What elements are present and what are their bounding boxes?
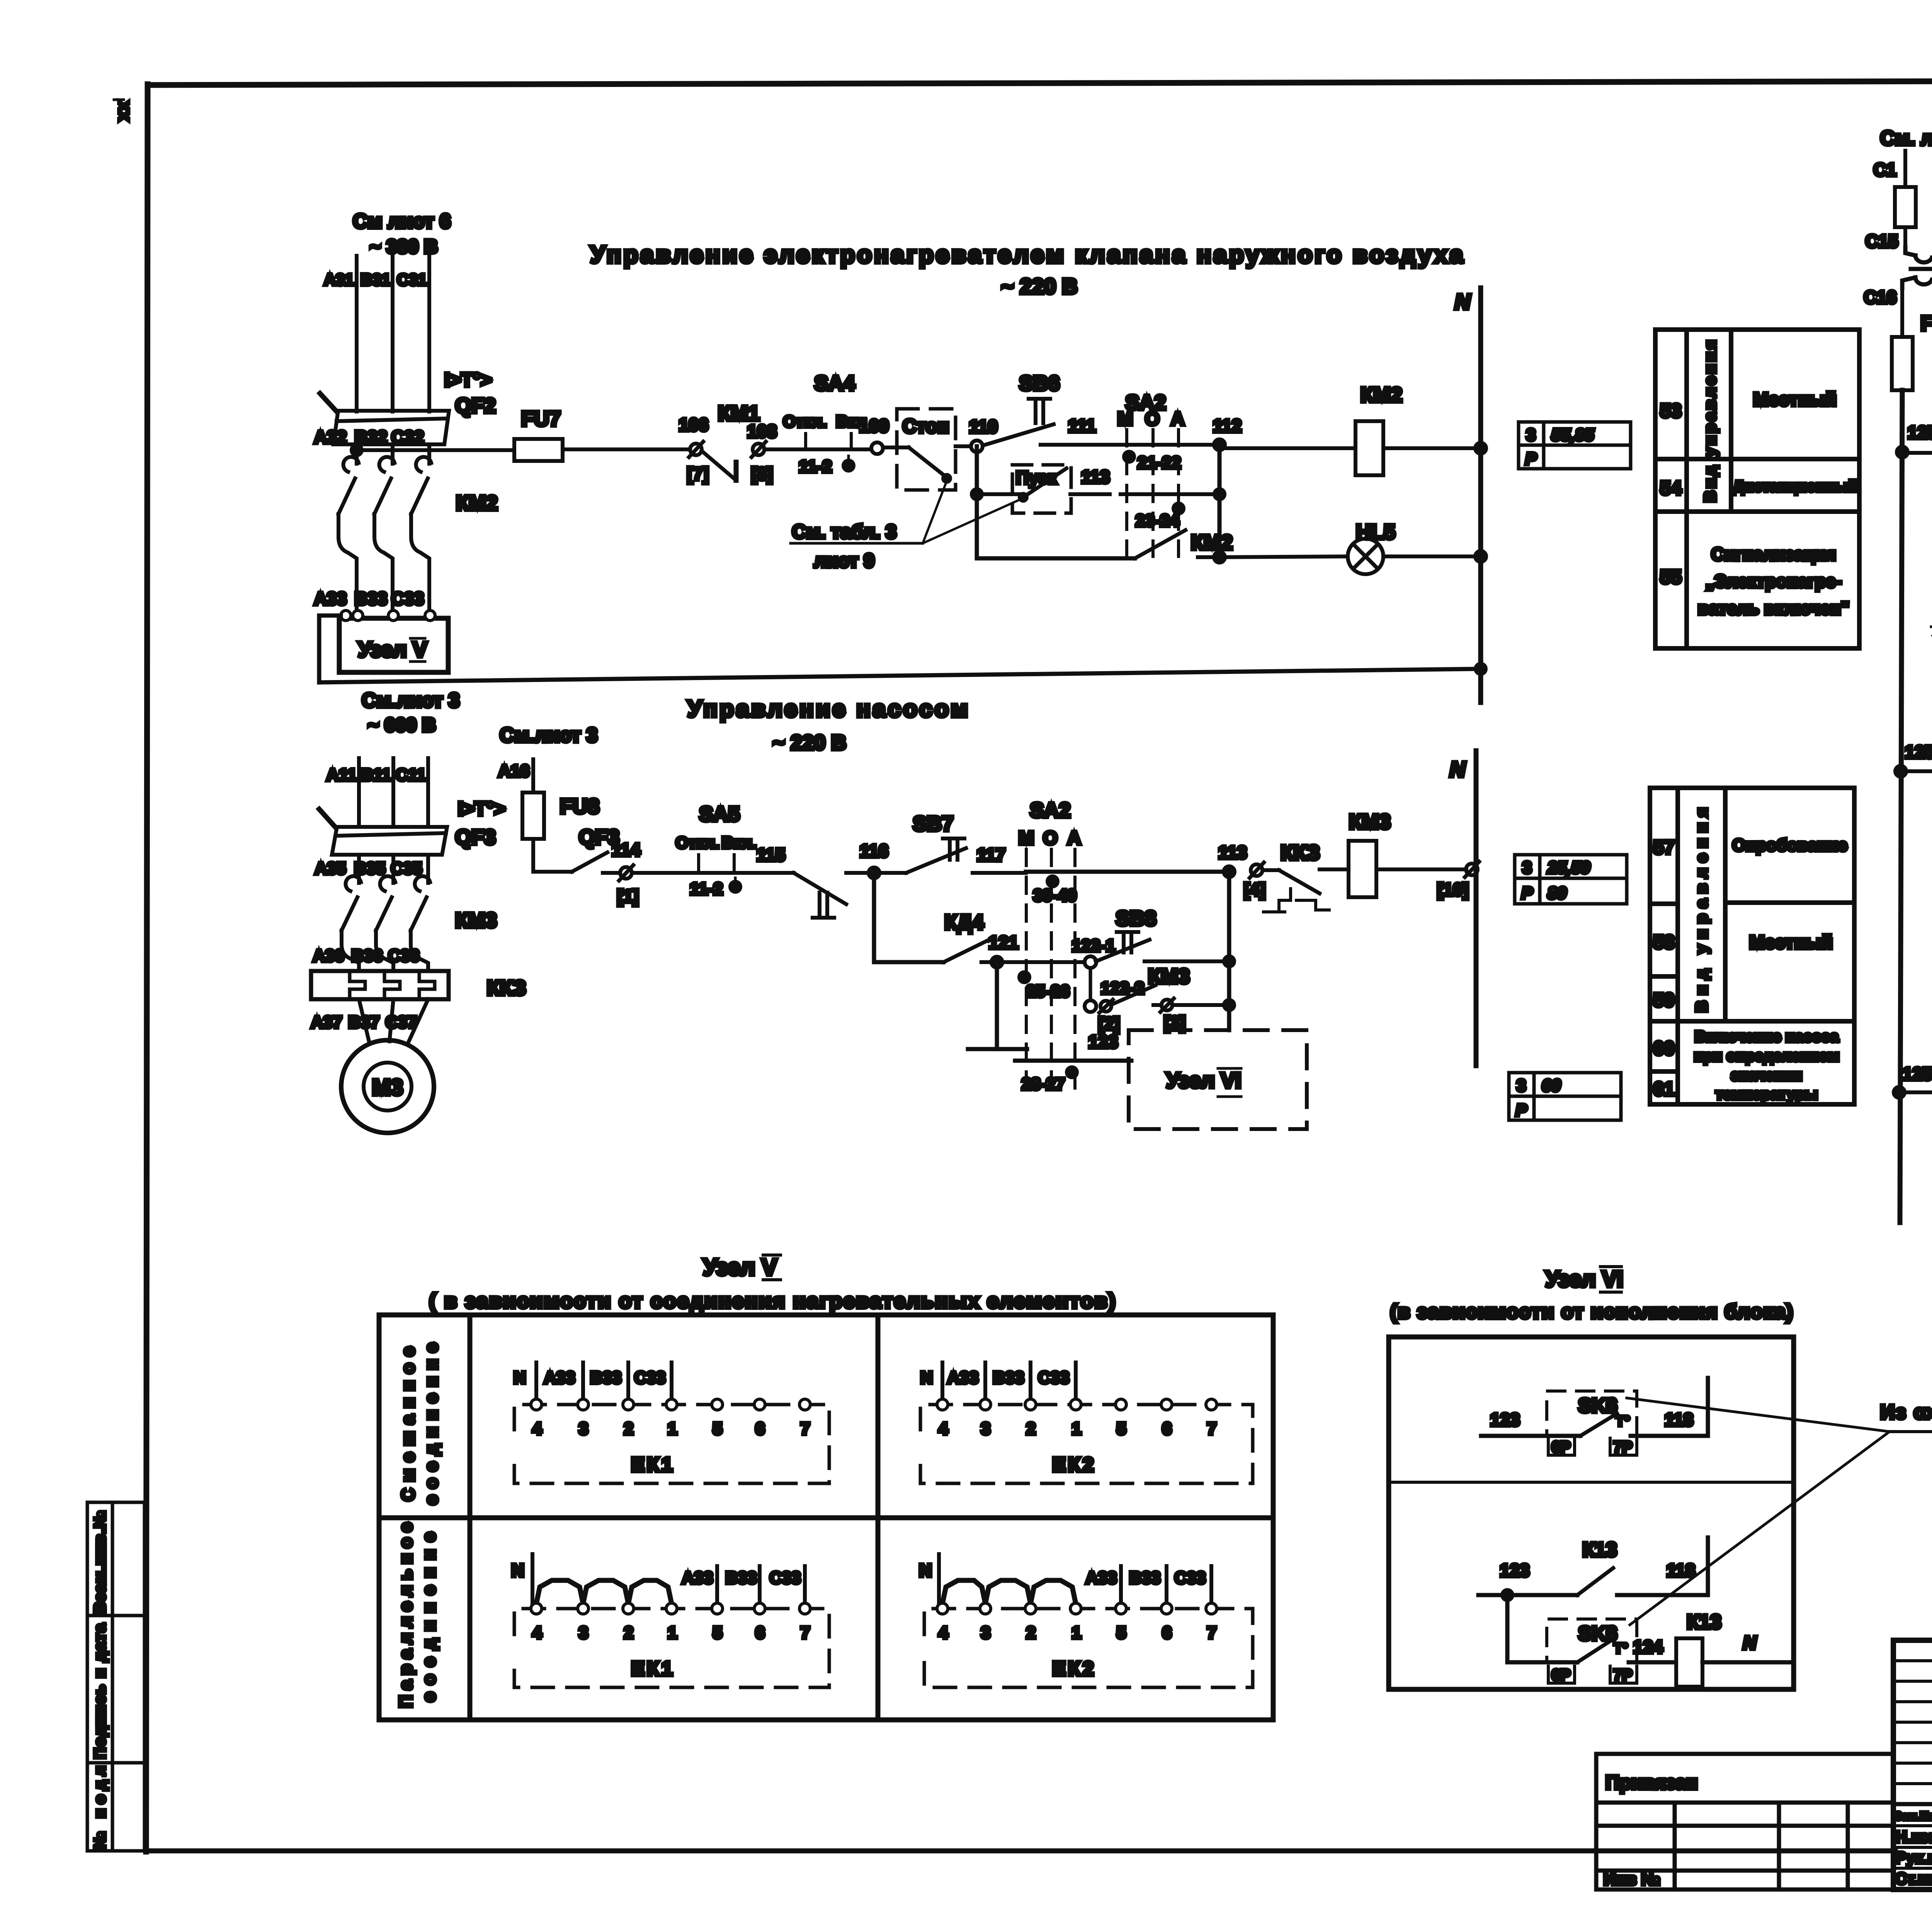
node 28-27 xyxy=(1067,1067,1077,1077)
svg-text:при определенном: при определенном xyxy=(1694,1048,1839,1065)
svg-text:А31: А31 xyxy=(324,270,354,289)
terminal 6Р (2) xyxy=(1548,1666,1575,1683)
heater EK1 (parallel) xyxy=(514,1609,829,1687)
title block left grid xyxy=(1893,1640,1932,1889)
svg-text:О: О xyxy=(1145,409,1159,429)
contact QF3 aux xyxy=(572,852,607,872)
svg-text:ЕК2: ЕК2 xyxy=(1052,1454,1096,1476)
svg-text:59: 59 xyxy=(1653,989,1675,1011)
wire 113 xyxy=(1070,492,1110,496)
wire xyxy=(632,871,683,875)
svg-text:FU8: FU8 xyxy=(560,795,599,818)
svg-text:Местный: Местный xyxy=(1753,389,1837,410)
svg-text:6Р: 6Р xyxy=(1552,1667,1571,1684)
svg-text:Опробование: Опробование xyxy=(1732,836,1847,855)
ref table 3:55,85 xyxy=(1519,422,1631,469)
svg-text:6: 6 xyxy=(1162,1623,1172,1642)
stamp column Взам.инв.№ xyxy=(87,1502,145,1616)
wire heater main row xyxy=(357,448,514,452)
svg-text:В33: В33 xyxy=(355,588,387,609)
contact KK3 break xyxy=(1263,868,1279,872)
svg-text:3: 3 xyxy=(981,1623,990,1642)
heater EK1 (mixed) xyxy=(514,1405,829,1483)
svg-text:FU7: FU7 xyxy=(521,407,561,430)
svg-text:~ 660 В: ~ 660 В xyxy=(368,714,436,736)
svg-text:5: 5 xyxy=(713,1623,722,1642)
fuse FU8 xyxy=(522,793,544,839)
svg-text:2: 2 xyxy=(1026,1419,1036,1438)
svg-text:А32: А32 xyxy=(314,427,347,447)
wire phase B31 xyxy=(391,256,395,412)
svg-text:SA5: SA5 xyxy=(699,803,740,826)
svg-text:С33: С33 xyxy=(634,1368,666,1387)
svg-text:123: 123 xyxy=(1490,1410,1520,1430)
svg-text:Смешанное: Смешанное xyxy=(398,1347,418,1501)
svg-text:В31: В31 xyxy=(361,270,390,289)
svg-text:КД4: КД4 xyxy=(944,911,983,934)
node 23-24 xyxy=(1173,503,1184,514)
svg-text:23-24: 23-24 xyxy=(1136,511,1179,530)
frame top border xyxy=(148,80,1932,85)
svg-text:2: 2 xyxy=(624,1419,633,1438)
svg-text:60: 60 xyxy=(1542,1076,1561,1095)
wire xyxy=(563,447,690,451)
block Узел VI dashed xyxy=(1129,1030,1307,1129)
svg-text:В33: В33 xyxy=(590,1368,622,1387)
svg-text:А37: А37 xyxy=(311,1013,342,1032)
svg-text:21-22: 21-22 xyxy=(1138,453,1181,472)
contact [10] plug xyxy=(1466,864,1478,875)
svg-text:ЕК1: ЕК1 xyxy=(631,1658,675,1680)
block Узел V xyxy=(339,618,448,672)
svg-text:N: N xyxy=(1450,757,1466,781)
node 122-2 xyxy=(1085,1000,1096,1012)
relay coil K13 xyxy=(1676,1638,1702,1687)
contact [4] plug xyxy=(1251,864,1262,876)
svg-text:С33: С33 xyxy=(770,1568,801,1587)
wire neutral return from Узел V xyxy=(319,616,1481,682)
svg-text:О: О xyxy=(1043,828,1057,849)
svg-text:N: N xyxy=(920,1368,933,1387)
svg-text:61: 61 xyxy=(1653,1078,1675,1100)
contact [3] plug xyxy=(1153,1003,1161,1007)
svg-text:К13: К13 xyxy=(1687,1611,1721,1633)
svg-text:~ 220 В: ~ 220 В xyxy=(1001,274,1078,298)
svg-text:Подпись и дата: Подпись и дата xyxy=(92,1623,109,1759)
svg-text:[2]: [2] xyxy=(1098,1014,1120,1034)
svg-text:N: N xyxy=(1455,289,1471,314)
svg-text:Узел VI: Узел VI xyxy=(1545,1267,1623,1292)
wire to QF3 aux xyxy=(533,870,572,874)
contact Пуск blade xyxy=(977,492,1023,496)
svg-text:См. лист 3: См. лист 3 xyxy=(1880,127,1932,150)
wire A16 xyxy=(531,759,535,793)
svg-text:А36: А36 xyxy=(313,946,344,965)
terminal 7Р xyxy=(1610,1438,1637,1455)
stamp column Инв №подл xyxy=(87,1763,145,1851)
fuse FU7 xyxy=(514,439,563,461)
svg-text:6: 6 xyxy=(755,1623,765,1642)
svg-text:А33: А33 xyxy=(1086,1568,1117,1587)
svg-text:110: 110 xyxy=(969,417,998,437)
wire C16 drop xyxy=(1900,288,1904,337)
wire lamp to N xyxy=(1383,554,1481,558)
node 125 (1) xyxy=(1897,447,1908,457)
svg-text:Из схемы регулирования: Из схемы регулирования xyxy=(1880,1401,1932,1423)
wire stub below 121 xyxy=(995,962,999,1049)
wire xyxy=(764,447,871,451)
wire row 123 xyxy=(1015,1059,1131,1063)
wire xyxy=(956,444,971,448)
wire vertical 112-113-KM2aux xyxy=(1218,445,1222,557)
svg-text:( в зависимости от соединени: ( в зависимости от соединения нагревател… xyxy=(429,1289,1116,1313)
svg-text:лист 9: лист 9 xyxy=(814,550,875,571)
svg-text:25,59: 25,59 xyxy=(1547,858,1590,877)
wire to lamp xyxy=(1219,556,1348,557)
svg-text:(в зависимости от исполнения: (в зависимости от исполнения блока) xyxy=(1390,1301,1794,1323)
svg-text:1: 1 xyxy=(668,1623,677,1642)
table Вид управления 53-55 xyxy=(1655,330,1859,648)
heater EK2 (parallel) xyxy=(924,1609,1253,1687)
stamp column Подпись и дата xyxy=(87,1616,145,1763)
svg-text:125: 125 xyxy=(1903,1064,1932,1084)
svg-text:Р: Р xyxy=(1515,1101,1527,1120)
svg-text:Вкл.: Вкл. xyxy=(722,833,757,852)
contact Стоп blade xyxy=(883,446,909,449)
svg-text:[10]: [10] xyxy=(1437,879,1469,900)
ref table 3:60 xyxy=(1509,1073,1621,1120)
svg-text:FU11: FU11 xyxy=(1920,312,1932,335)
svg-text:Ст.инж.: Ст.инж. xyxy=(1895,1869,1932,1888)
svg-text:А33: А33 xyxy=(314,588,347,609)
coil KM2 xyxy=(1219,446,1355,450)
svg-text:QF2: QF2 xyxy=(455,394,496,417)
svg-text:[8]: [8] xyxy=(751,464,773,484)
svg-text:КМ2: КМ2 xyxy=(1361,383,1402,406)
svg-text:1: 1 xyxy=(668,1419,677,1438)
wire row 122-1 xyxy=(1026,960,1084,964)
svg-text:2: 2 xyxy=(1026,1623,1036,1642)
svg-text:[1]: [1] xyxy=(617,886,639,906)
svg-text:Р: Р xyxy=(1521,884,1533,903)
contact 114 [1] plug xyxy=(603,871,620,875)
svg-text:Инв №: Инв № xyxy=(1604,1870,1660,1889)
svg-text:58: 58 xyxy=(1653,931,1675,953)
svg-text:115: 115 xyxy=(757,845,785,865)
node 109 xyxy=(871,442,883,454)
svg-text:QF3: QF3 xyxy=(455,826,496,849)
svg-text:Узел V: Узел V xyxy=(703,1254,777,1280)
node 39-40 xyxy=(1048,876,1058,886)
bus N heater section xyxy=(1478,288,1483,702)
svg-text:В11: В11 xyxy=(361,765,391,784)
svg-text:С33: С33 xyxy=(1038,1368,1070,1387)
svg-text:3: 3 xyxy=(1517,1076,1526,1095)
svg-text:118: 118 xyxy=(1665,1410,1693,1430)
thermal relay KK3 xyxy=(311,971,449,999)
svg-text:7Р: 7Р xyxy=(1614,1439,1633,1456)
svg-text:Сигнализация: Сигнализация xyxy=(1711,544,1836,564)
coil KM3 xyxy=(1320,867,1349,871)
svg-text:С33: С33 xyxy=(391,588,424,609)
wire drop 116 to KD4 row xyxy=(872,873,876,962)
svg-text:3: 3 xyxy=(579,1419,588,1438)
svg-text:Узел VI: Узел VI xyxy=(1166,1068,1241,1092)
svg-text:113: 113 xyxy=(1081,467,1110,487)
svg-text:N: N xyxy=(514,1368,526,1387)
button Пуск dashed box xyxy=(1012,465,1071,513)
svg-text:60: 60 xyxy=(1653,1037,1675,1059)
svg-text:А33: А33 xyxy=(947,1368,979,1387)
svg-text:4: 4 xyxy=(939,1419,948,1438)
svg-text:ККЗ: ККЗ xyxy=(1281,841,1320,864)
svg-text:4: 4 xyxy=(532,1623,542,1642)
contact KM3 aux xyxy=(1100,1001,1111,1012)
wire phase A11 xyxy=(357,758,361,827)
svg-text:123: 123 xyxy=(1088,1032,1118,1052)
wire to SK6 (variant 2) xyxy=(1505,1595,1510,1662)
svg-text:М: М xyxy=(1019,828,1034,849)
svg-text:температуры: температуры xyxy=(1716,1086,1818,1103)
svg-text:А33: А33 xyxy=(682,1568,713,1587)
svg-text:С36: С36 xyxy=(388,946,420,965)
svg-text:Управление электронагревателе: Управление электронагревателем клапана н… xyxy=(590,241,1465,268)
svg-text:HL5: HL5 xyxy=(1356,520,1395,544)
svg-text:SA4: SA4 xyxy=(814,372,855,395)
svg-text:Откл.: Откл. xyxy=(675,833,719,852)
svg-text:ККЗ: ККЗ xyxy=(487,976,526,1000)
motor M3 xyxy=(341,1040,434,1133)
svg-text:28-27: 28-27 xyxy=(1022,1075,1065,1094)
svg-text:[7]: [7] xyxy=(687,464,709,484)
contact KM2 aux xyxy=(1135,530,1185,558)
svg-text:~ 220 В: ~ 220 В xyxy=(773,731,847,754)
contact 108 [8] plug xyxy=(753,444,764,455)
wire 117 xyxy=(973,871,1026,875)
svg-text:Рук.гр.: Рук.гр. xyxy=(1895,1849,1932,1867)
svg-text:Р: Р xyxy=(1525,449,1537,468)
svg-text:А16: А16 xyxy=(498,762,530,781)
svg-text:„Электронагре-: „Электронагре- xyxy=(1706,571,1842,591)
svg-text:2: 2 xyxy=(624,1623,633,1642)
svg-text:М3: М3 xyxy=(372,1075,403,1100)
wire C1 xyxy=(1903,151,1907,187)
svg-text:Управление насосом: Управление насосом xyxy=(687,696,970,722)
svg-text:SK6: SK6 xyxy=(1578,1395,1617,1417)
svg-text:В33: В33 xyxy=(1129,1568,1161,1587)
ref table 3:25,59 Р:89 xyxy=(1515,855,1627,904)
svg-text:6Р: 6Р xyxy=(1552,1439,1571,1456)
terminal 7Р (2) xyxy=(1610,1666,1637,1683)
terminal 6Р xyxy=(1548,1438,1575,1455)
wire 122-1 to 122-2 xyxy=(1089,968,1092,1001)
svg-text:Дистанционный: Дистанционный xyxy=(1733,478,1857,495)
frame left border xyxy=(146,84,148,1852)
svg-text:КМ3: КМ3 xyxy=(455,909,497,932)
svg-text:Включение насоса: Включение насоса xyxy=(1695,1028,1839,1045)
node 25-26 xyxy=(1019,972,1029,982)
svg-text:3: 3 xyxy=(1526,425,1536,444)
wires KK3 to motor xyxy=(359,999,369,1041)
svg-text:118: 118 xyxy=(1667,1560,1695,1580)
svg-text:А35: А35 xyxy=(315,859,346,878)
svg-text:К13: К13 xyxy=(1582,1539,1617,1561)
svg-text:Т°: Т° xyxy=(1616,1413,1630,1429)
node 110 xyxy=(971,440,983,452)
svg-text:М: М xyxy=(1117,409,1133,429)
svg-text:112: 112 xyxy=(1213,416,1242,436)
svg-text:С15: С15 xyxy=(1866,231,1898,251)
node 125 (2) xyxy=(1895,766,1906,777)
wire vertical 113 down xyxy=(1227,872,1231,1030)
table Вид управления 57-61 xyxy=(1650,788,1854,1104)
svg-text:N: N xyxy=(919,1560,932,1580)
svg-text:5: 5 xyxy=(1117,1623,1126,1642)
svg-text:КМ2: КМ2 xyxy=(456,492,498,515)
svg-text:117: 117 xyxy=(977,845,1005,865)
svg-text:53: 53 xyxy=(1660,400,1682,422)
svg-text:7: 7 xyxy=(801,1419,810,1438)
svg-text:5: 5 xyxy=(1117,1419,1126,1438)
svg-text:А11: А11 xyxy=(327,765,357,784)
contactor KM3 main contacts xyxy=(342,855,430,971)
svg-text:ЕК1: ЕК1 xyxy=(631,1454,675,1476)
node 21-22 xyxy=(1124,452,1134,462)
svg-text:ватель включен": ватель включен" xyxy=(1698,598,1849,618)
svg-text:123: 123 xyxy=(1500,1560,1530,1580)
wire KM2 aux row xyxy=(977,556,1135,561)
svg-text:108: 108 xyxy=(747,421,777,441)
svg-text:N: N xyxy=(1743,1633,1757,1653)
table Узел V outer xyxy=(379,1315,1273,1720)
svg-text:113: 113 xyxy=(1218,842,1247,862)
svg-text:Откл.: Откл. xyxy=(783,412,827,430)
svg-text:N: N xyxy=(511,1560,524,1580)
transformer TV2 xyxy=(1902,247,1932,288)
svg-text:125: 125 xyxy=(1905,742,1932,762)
svg-text:121: 121 xyxy=(989,932,1019,952)
svg-text:С31: С31 xyxy=(397,270,427,289)
svg-text:Т°: Т° xyxy=(1614,1640,1628,1656)
svg-text:7: 7 xyxy=(1207,1623,1216,1642)
svg-text:См. табл. 3: См. табл. 3 xyxy=(792,521,896,543)
svg-text:54: 54 xyxy=(1660,477,1682,499)
svg-text:25-26: 25-26 xyxy=(1026,982,1070,1001)
button Стоп dashed box xyxy=(897,409,956,490)
lamp HL5 xyxy=(1348,539,1383,574)
bus N pump section xyxy=(1474,751,1479,1066)
svg-text:7: 7 xyxy=(1207,1419,1216,1438)
breaker QF2 xyxy=(320,393,449,444)
fuse FU10 xyxy=(1895,187,1916,227)
svg-text:С16: С16 xyxy=(1864,287,1896,307)
wire to node 116 xyxy=(846,871,874,875)
svg-text:Зам.Нач отд: Зам.Нач отд xyxy=(1895,1810,1932,1823)
svg-text:111: 111 xyxy=(1068,416,1096,436)
svg-text:А: А xyxy=(1068,828,1081,849)
svg-text:4: 4 xyxy=(532,1419,542,1438)
svg-text:Н.контр.: Н.контр. xyxy=(1895,1828,1932,1846)
svg-text:I>T°>: I>T°> xyxy=(444,369,492,391)
svg-text:[4]: [4] xyxy=(1244,879,1265,900)
svg-text:106: 106 xyxy=(679,415,709,435)
breaker QF3 xyxy=(319,809,447,855)
svg-text:С33: С33 xyxy=(1175,1568,1206,1587)
wire 111 xyxy=(1041,443,1110,447)
contactor KM2 main contacts xyxy=(338,444,431,612)
svg-text:См.лист 3: См.лист 3 xyxy=(362,689,459,712)
heater EK2 (mixed) xyxy=(920,1405,1253,1483)
wire phase C11 xyxy=(426,758,430,827)
wire 115 xyxy=(683,871,794,875)
title block main xyxy=(1893,1640,1932,1889)
svg-text:Узел V: Узел V xyxy=(358,637,427,662)
svg-text:39-40: 39-40 xyxy=(1033,886,1077,905)
svg-text:См.лист 3: См.лист 3 xyxy=(500,724,597,747)
svg-text:Привязан: Привязан xyxy=(1605,1772,1698,1793)
wire pump main row to 113 xyxy=(1026,870,1229,874)
svg-text:SA2: SA2 xyxy=(1030,799,1070,822)
node 122-1 xyxy=(1085,956,1096,968)
svg-text:122-1: 122-1 xyxy=(1072,936,1116,955)
wire phase C31 xyxy=(427,256,431,412)
svg-text:КМ2: КМ2 xyxy=(1191,531,1233,554)
svg-text:7Р: 7Р xyxy=(1614,1667,1633,1684)
wire to node 112 xyxy=(1110,443,1219,447)
svg-text:3: 3 xyxy=(981,1419,990,1438)
svg-text:КМ3: КМ3 xyxy=(1148,965,1190,988)
contact KM1 xyxy=(702,451,736,480)
svg-text:114: 114 xyxy=(612,840,641,860)
svg-text:116: 116 xyxy=(860,841,888,861)
svg-text:124: 124 xyxy=(1633,1637,1663,1657)
svg-text:SB8: SB8 xyxy=(1116,907,1156,930)
svg-text:В36: В36 xyxy=(352,946,383,965)
svg-text:С11: С11 xyxy=(396,765,426,784)
svg-text:С1: С1 xyxy=(1874,160,1896,180)
svg-text:5: 5 xyxy=(713,1419,722,1438)
frame bottom border xyxy=(146,1849,1895,1854)
svg-text:3: 3 xyxy=(579,1623,588,1642)
svg-text:В33: В33 xyxy=(726,1568,757,1587)
wire phase A31 xyxy=(355,256,359,412)
svg-text:6: 6 xyxy=(1162,1419,1172,1438)
node 125 (3) xyxy=(1894,1087,1905,1098)
svg-text:I>T°>: I>T°> xyxy=(458,798,505,820)
svg-text:7: 7 xyxy=(801,1623,810,1642)
svg-text:3: 3 xyxy=(1522,858,1532,877)
svg-text:SB6: SB6 xyxy=(1019,372,1060,395)
svg-text:1: 1 xyxy=(1072,1623,1081,1642)
svg-text:А33: А33 xyxy=(544,1368,575,1387)
svg-text:6: 6 xyxy=(755,1419,765,1438)
svg-text:55,85: 55,85 xyxy=(1551,425,1594,444)
title block Привязан table xyxy=(1596,1754,1893,1889)
svg-text:См лист 6: См лист 6 xyxy=(353,210,451,233)
bus left control (FU11) xyxy=(1900,390,1902,1223)
callout lines to Из схемы регулирования xyxy=(1627,1398,1889,1432)
svg-text:КМ3: КМ3 xyxy=(1349,810,1391,833)
svg-text:109: 109 xyxy=(859,416,889,436)
svg-text:89: 89 xyxy=(1548,884,1566,903)
svg-text:В33: В33 xyxy=(993,1368,1024,1387)
button SB7 break contact xyxy=(794,873,846,904)
svg-text:57: 57 xyxy=(1653,837,1675,858)
svg-text:1: 1 xyxy=(1072,1419,1081,1438)
svg-text:Местный: Местный xyxy=(1749,932,1833,953)
node 121 xyxy=(992,957,1002,968)
svg-text:С32: С32 xyxy=(391,427,424,447)
